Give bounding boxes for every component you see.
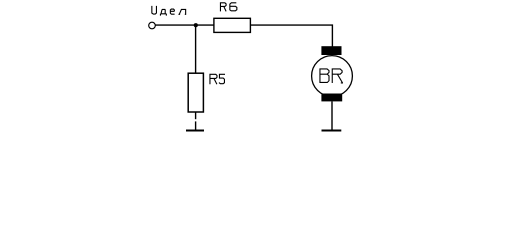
node Uдел (input terminal) [149,22,156,29]
resistor R5 [188,73,203,112]
wire [195,121,197,130]
brush (top) of BR [321,46,341,55]
wire R5 to ground (with break) [195,112,197,119]
ground (under R5) [186,130,204,132]
brush (bottom) of BR [321,94,342,102]
ground (under BR) [322,130,342,132]
wire BR to ground [331,101,333,130]
label BR [320,68,343,83]
label R6 [220,2,236,11]
junction [194,23,198,27]
label Uдел [152,6,186,16]
wire junction to R5 [195,25,197,73]
motor BR (circle) [312,56,353,97]
wire R6 to BR (with corner) [251,25,333,46]
label R5 [210,74,225,84]
resistor R6 [214,18,251,32]
wire terminal to R6 [156,24,214,26]
